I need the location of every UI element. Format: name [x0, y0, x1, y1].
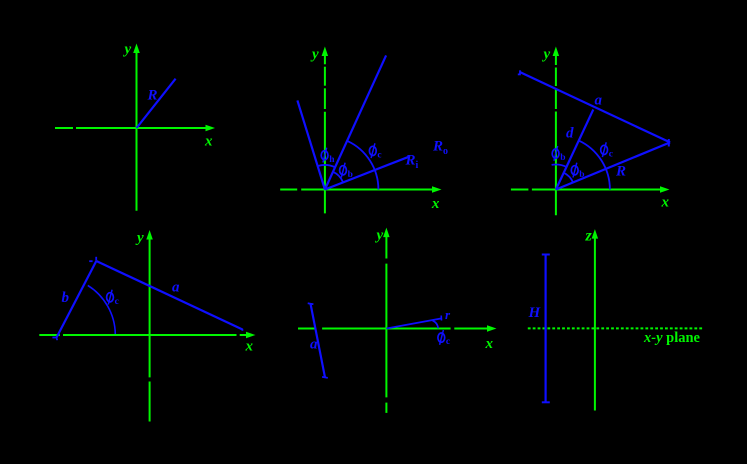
label phi_c P2	[369, 146, 376, 155]
y-axis P5	[385, 236, 387, 259]
line R P3	[556, 142, 670, 189]
svg-text:y: y	[135, 230, 144, 246]
svg-text:c: c	[377, 150, 381, 160]
svg-text:x: x	[661, 195, 670, 211]
arc phi_b2 P3	[564, 173, 573, 183]
x-axis P1	[55, 127, 73, 129]
y-axis P2 (long-dash)	[324, 54, 326, 64]
line a P3 (arrow upper-left)	[520, 72, 670, 142]
svg-text:R: R	[615, 164, 626, 180]
svg-text:b: b	[62, 290, 70, 306]
svg-text:x: x	[245, 339, 254, 355]
ray R_i P2	[325, 157, 409, 190]
x-axis P4	[39, 334, 60, 336]
vector R P1	[137, 79, 176, 128]
label phi_b1 P3	[552, 149, 559, 158]
svg-text:a: a	[310, 337, 318, 353]
svg-text:y: y	[123, 42, 132, 58]
svg-text:H: H	[528, 305, 542, 321]
x-axis P2	[280, 189, 297, 191]
svg-text:z: z	[585, 228, 593, 245]
ray upper-left P2	[297, 100, 325, 189]
y-axis P3	[555, 54, 557, 65]
svg-text:c: c	[609, 149, 613, 159]
x-axis P3	[511, 189, 529, 191]
arc phi_c P2	[347, 141, 378, 190]
segment a P5 with end caps	[311, 304, 326, 378]
svg-text:a: a	[172, 280, 180, 296]
arc phi_b1 P3	[552, 165, 567, 167]
arc phi_h P2	[318, 165, 336, 167]
arc phi_c P4	[88, 285, 116, 334]
segment a P4 (arrows both ends)	[96, 261, 242, 330]
arc phi_c P3	[579, 140, 610, 189]
svg-text:y: y	[310, 47, 319, 63]
label phi_c P3	[601, 145, 608, 154]
line r P5	[386, 318, 441, 328]
svg-text:c: c	[446, 337, 450, 347]
arc phi_b P2	[333, 172, 343, 182]
antenna element H P6	[544, 255, 546, 403]
x-axis P5	[298, 328, 315, 330]
svg-text:x: x	[204, 134, 213, 150]
label phi_c P5	[438, 333, 445, 342]
dotted x-y plane line P6	[528, 327, 703, 329]
label phi_c P4	[107, 293, 114, 302]
svg-text:x-y plane: x-y plane	[643, 330, 701, 346]
arc phi_c P5	[433, 321, 439, 329]
svg-text:b: b	[348, 170, 353, 180]
svg-text:R: R	[147, 88, 158, 104]
label phi_b P2	[340, 166, 347, 175]
svg-text:y: y	[375, 228, 384, 244]
svg-text:b: b	[560, 153, 565, 163]
svg-text:a: a	[595, 93, 603, 109]
tick right vertex P3	[668, 139, 670, 147]
ray upper-right P2	[325, 55, 386, 189]
svg-text:b: b	[579, 170, 584, 180]
label phi_h P2	[321, 151, 328, 160]
z-axis P6	[594, 237, 596, 411]
line d P3	[556, 110, 593, 190]
svg-text:y: y	[542, 47, 551, 63]
svg-text:h: h	[329, 155, 335, 165]
svg-text:x: x	[485, 336, 494, 352]
label phi_b2 P3	[571, 166, 578, 175]
y-axis P1	[136, 51, 138, 211]
svg-text:d: d	[566, 126, 574, 142]
svg-text:c: c	[115, 297, 119, 307]
segment b P4	[56, 261, 96, 339]
y-axis P4	[149, 238, 151, 377]
svg-text:x: x	[431, 196, 440, 212]
